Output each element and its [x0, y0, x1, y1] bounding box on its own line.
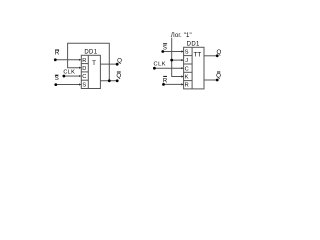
svg-text:R: R [163, 78, 168, 84]
svg-text:DD1: DD1 [187, 41, 200, 47]
svg-text:Q: Q [216, 72, 221, 79]
svg-text:R: R [82, 58, 86, 64]
svg-text:S: S [185, 50, 189, 56]
svg-text:R: R [185, 83, 189, 89]
svg-text:T: T [92, 60, 96, 67]
svg-text:DD1: DD1 [84, 49, 97, 55]
svg-text:D: D [82, 66, 86, 72]
svg-text:TT: TT [194, 51, 202, 58]
svg-text:C: C [82, 74, 86, 80]
svg-text:Лог. "1": Лог. "1" [171, 33, 192, 39]
svg-text:Q: Q [216, 49, 221, 56]
svg-text:S: S [55, 76, 59, 82]
svg-text:R: R [55, 50, 60, 56]
svg-text:S: S [82, 83, 86, 89]
svg-text:K: K [185, 75, 189, 81]
svg-text:C: C [185, 66, 189, 72]
svg-text:CLK: CLK [154, 62, 166, 68]
svg-text:Q: Q [117, 57, 122, 64]
svg-text:Q: Q [116, 72, 121, 79]
svg-text:CLK: CLK [63, 70, 75, 76]
svg-text:J: J [185, 58, 188, 64]
svg-text:S: S [163, 46, 167, 52]
